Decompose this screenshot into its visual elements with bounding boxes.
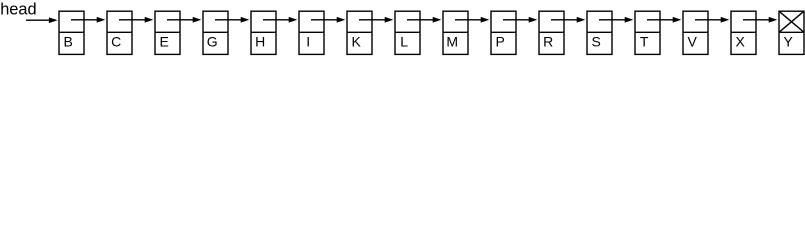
svg-text:X: X [736,34,746,50]
head arrowhead [50,18,56,22]
node K box [347,11,372,54]
svg-text:T: T [640,34,649,50]
svg-text:C: C [111,34,121,50]
svg-text:L: L [400,34,408,50]
svg-text:V: V [688,34,698,50]
node E divider [155,31,180,33]
node T divider [635,31,660,33]
svg-text:R: R [543,34,553,50]
svg-text:H: H [255,34,265,50]
node I next-pointer wire [311,19,340,21]
node K next-pointer arrowhead [385,18,391,22]
node V divider [683,31,708,33]
head arrow wire [26,19,52,21]
node V next-pointer wire [695,19,724,21]
node L next-pointer wire [407,19,436,21]
svg-text:Y: Y [784,34,794,50]
node M next-pointer wire [455,19,484,21]
node K next-pointer wire [359,19,388,21]
svg-text:K: K [352,34,362,50]
node Y divider [779,31,804,33]
node B divider [59,31,84,33]
node M box [443,11,468,54]
node T next-pointer wire [647,19,676,21]
node R next-pointer arrowhead [577,18,583,22]
node R next-pointer wire [551,19,580,21]
node P box [491,11,516,54]
node C next-pointer wire [119,19,148,21]
node X divider [731,31,756,33]
node E next-pointer wire [167,19,196,21]
node B next-pointer arrowhead [97,18,103,22]
node X box [731,11,756,54]
node S next-pointer arrowhead [625,18,631,22]
node X next-pointer wire [743,19,772,21]
node X next-pointer arrowhead [769,18,775,22]
node V box [683,11,708,54]
node P next-pointer arrowhead [529,18,535,22]
node C divider [107,31,132,33]
node T next-pointer arrowhead [673,18,679,22]
node P divider [491,31,516,33]
svg-text:E: E [160,34,169,50]
node H divider [251,31,276,33]
node G box [203,11,228,54]
node Y null cross line 1 [779,11,804,32]
node Y null cross line 2 [779,11,804,32]
node S divider [587,31,612,33]
node G divider [203,31,228,33]
node I box [299,11,324,54]
node S box [587,11,612,54]
node H next-pointer arrowhead [289,18,295,22]
node L box [395,11,420,54]
node C box [107,11,132,54]
node V next-pointer arrowhead [721,18,727,22]
node S next-pointer wire [599,19,628,21]
node E box [155,11,180,54]
node P next-pointer wire [503,19,532,21]
svg-text:B: B [64,34,73,50]
node Y box [779,11,804,54]
svg-text:head: head [0,1,36,19]
node B next-pointer wire [71,19,100,21]
node K divider [347,31,372,33]
node G next-pointer arrowhead [241,18,247,22]
node H next-pointer wire [263,19,292,21]
svg-text:S: S [592,34,601,50]
node G next-pointer wire [215,19,244,21]
node M next-pointer arrowhead [481,18,487,22]
node L next-pointer arrowhead [433,18,439,22]
svg-text:P: P [496,34,505,50]
node E next-pointer arrowhead [193,18,199,22]
node R divider [539,31,564,33]
svg-text:G: G [207,34,218,50]
node M divider [443,31,468,33]
node C next-pointer arrowhead [145,18,151,22]
node B box [59,11,84,54]
svg-text:I: I [306,34,310,50]
node R box [539,11,564,54]
node H box [251,11,276,54]
svg-text:M: M [446,34,458,50]
node L divider [395,31,420,33]
node T box [635,11,660,54]
node I next-pointer arrowhead [337,18,343,22]
node I divider [299,31,324,33]
